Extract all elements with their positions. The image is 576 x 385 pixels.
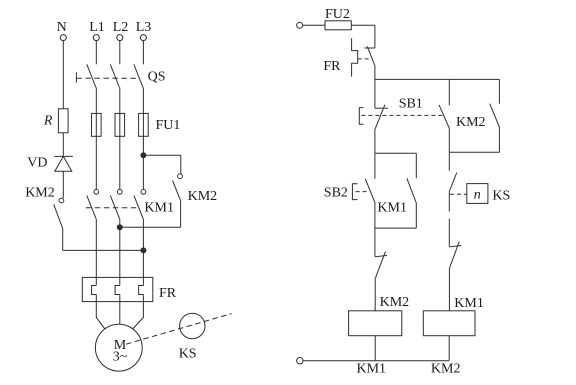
contactor KM1 main contacts [86, 189, 174, 218]
wire rail to SB1 [374, 79, 376, 108]
diode VD [27, 156, 73, 172]
wire L3 KM1 to FR [142, 219, 144, 286]
terminal L2 [113, 20, 129, 41]
svg-text:KM2: KM2 [456, 115, 486, 130]
interlock contact above KM2 coil (NC) [375, 252, 387, 278]
wire SB2 to latch bottom [374, 204, 376, 257]
wire KM1 coil to rail [448, 336, 450, 361]
wire VD to KM2 contact [62, 171, 64, 198]
svg-text:FU1: FU1 [156, 118, 181, 133]
svg-text:KM2: KM2 [431, 362, 461, 377]
wire FR to motor left [96, 295, 105, 329]
svg-text:KM1: KM1 [357, 362, 387, 377]
wire KM2 bottom down [62, 229, 64, 251]
thermal relay FR heaters [82, 277, 176, 301]
speed relay KS sensor [126, 313, 232, 361]
motor M 3~ [95, 324, 142, 371]
start button SB2 (NO) [324, 179, 376, 204]
svg-text:R: R [43, 114, 53, 129]
svg-text:QS: QS [148, 70, 166, 85]
svg-text:L1: L1 [89, 20, 105, 35]
svg-text:n: n [474, 188, 481, 203]
contactor contact KM2 (right bypass) [173, 174, 218, 204]
wire KS down (segment) [448, 192, 450, 212]
wire FR to motor middle [119, 295, 121, 325]
wire corner down to FR [374, 25, 376, 48]
svg-text:KM1: KM1 [454, 296, 484, 311]
wire bypass across to L2 [120, 226, 181, 228]
wire L1 top [95, 41, 97, 65]
wire FR to rail [374, 66, 376, 80]
wire node to SB2 [374, 153, 376, 179]
node2 bottom across [449, 151, 499, 153]
svg-text:FU2: FU2 [325, 7, 350, 22]
self-latch contact KM1 (NO) [377, 178, 416, 216]
svg-text:L2: L2 [113, 20, 129, 35]
bottom rail [303, 360, 449, 362]
speed relay contact KS (NO) [449, 173, 510, 204]
terminal bottom left [297, 358, 303, 364]
node SB2/KM1 top [375, 152, 416, 154]
coil KM1 [423, 296, 484, 336]
svg-text:KM1: KM1 [377, 201, 407, 216]
junction on L3 below KM1 [141, 248, 146, 253]
wire L2 through fuse down to KM1 [119, 88, 121, 190]
wire KM2 coil to rail [374, 336, 376, 361]
svg-text:FR: FR [323, 59, 341, 74]
wire L1 KM1 to FR [95, 219, 97, 286]
wire L1 through fuse down to KM1 [95, 88, 97, 190]
wire bypass down [180, 201, 182, 228]
svg-text:KM2: KM2 [188, 189, 218, 204]
wire L2 KM1 to FR [119, 219, 121, 286]
svg-text:SB1: SB1 [399, 96, 423, 111]
terminal L3 [136, 20, 152, 41]
svg-text:3~: 3~ [113, 349, 128, 364]
wire KM2 latch down [498, 127, 500, 152]
interlock contact above KM1 coil (NC) [449, 242, 461, 268]
wire gap segment [448, 219, 450, 247]
wire L2 top [119, 41, 121, 65]
terminal L1 [89, 20, 105, 41]
svg-text:KS: KS [492, 189, 510, 204]
wire branch right from L3 node [143, 154, 180, 156]
stop button SB1 (NC) [359, 96, 443, 129]
svg-text:KM2: KM2 [380, 295, 410, 310]
svg-text:SB2: SB2 [324, 185, 348, 200]
wire KM2 bottom across to L3 [63, 249, 144, 251]
svg-text:N: N [57, 20, 67, 35]
fuse FU2 [325, 7, 351, 30]
disconnect switch QS [76, 64, 165, 87]
wire node2 to KS contact [448, 152, 450, 171]
svg-text:KM1: KM1 [144, 201, 174, 216]
svg-text:FR: FR [159, 286, 177, 301]
terminal top left [297, 22, 303, 28]
fuse FU1 [92, 113, 181, 136]
wire R to VD [62, 133, 64, 157]
wire down to node2 [448, 128, 450, 152]
wire to KM2 coil [374, 278, 376, 311]
wire rail to SB1-NO [448, 79, 450, 105]
wire to KM1 coil [448, 268, 450, 311]
top rail [375, 78, 500, 80]
resistor R [43, 109, 68, 133]
coil KM2 [349, 295, 410, 336]
terminal N [57, 20, 67, 41]
svg-text:VD: VD [27, 156, 47, 171]
wire SB1 to node [374, 130, 376, 154]
wire FU2 to corner [351, 24, 375, 26]
wire L3 top [142, 41, 144, 65]
contactor contact KM2 (left pole, brake feed) [25, 185, 64, 228]
wire L3 through fuse down to KM1 [142, 88, 144, 190]
svg-text:L3: L3 [136, 20, 152, 35]
wire N vertical [62, 41, 64, 109]
thermal relay contact FR (NC) [323, 38, 375, 76]
button contact SB1 (NO, linked) [439, 105, 449, 128]
wire latch branch down [415, 153, 417, 178]
wire rail to KM2 latch [498, 79, 500, 103]
self-latch contact KM2 (NO) [456, 104, 499, 130]
junction on L2 below KM1 [117, 225, 122, 230]
latch bottom across [375, 227, 416, 229]
svg-text:KS: KS [179, 347, 197, 362]
wire FR to motor right [133, 295, 144, 329]
wire latch bottom [415, 203, 417, 228]
wire terminal to FU2 [303, 24, 325, 26]
node on L3 above KM1 [141, 153, 146, 158]
wire branch down [180, 155, 182, 174]
svg-text:KM2: KM2 [25, 185, 55, 200]
